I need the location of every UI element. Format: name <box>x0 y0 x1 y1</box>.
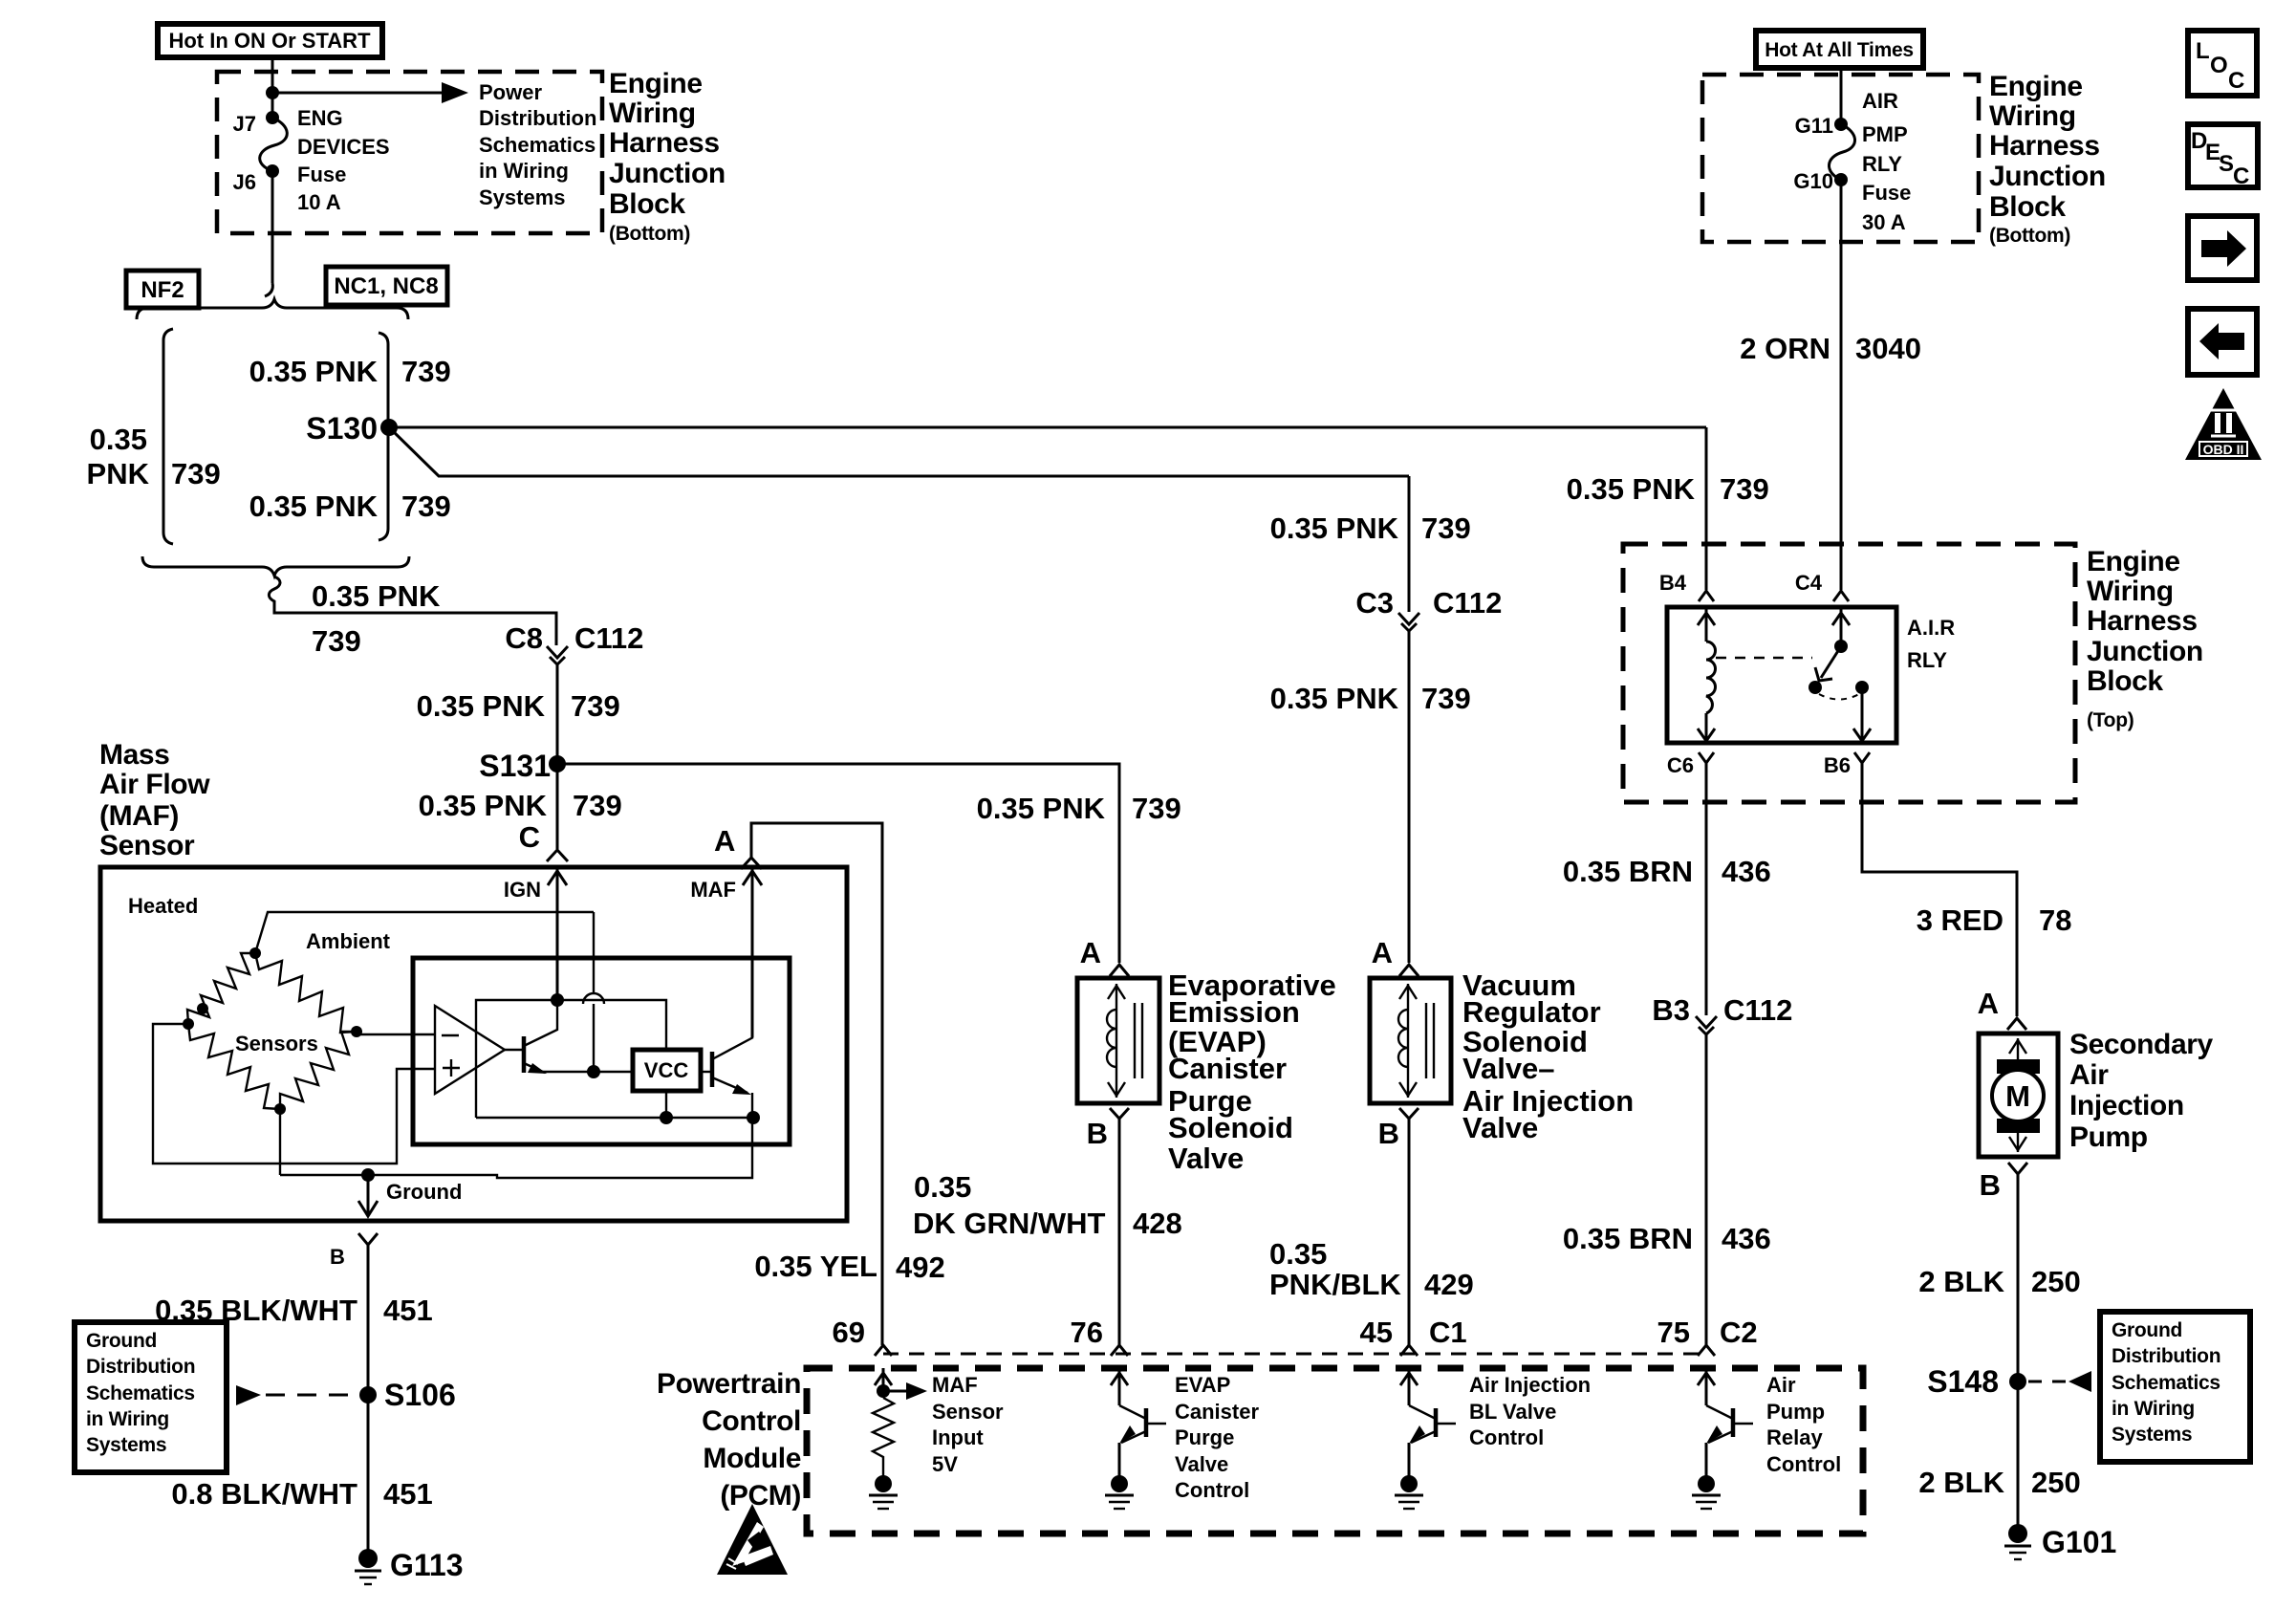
svg-text:G101: G101 <box>2042 1525 2116 1559</box>
svg-text:45: 45 <box>1360 1316 1393 1349</box>
svg-text:VCC: VCC <box>644 1058 689 1082</box>
svg-text:739: 739 <box>171 457 221 490</box>
svg-text:Air Flow: Air Flow <box>99 769 210 800</box>
junction dot feedback/IGN <box>551 993 564 1007</box>
label 0.8 BLK/WHT 451 <box>171 1477 432 1511</box>
svg-text:250: 250 <box>2031 1265 2081 1298</box>
wire break hook <box>265 283 272 296</box>
svg-text:2 BLK: 2 BLK <box>1918 1466 2004 1499</box>
svg-text:NC1, NC8: NC1, NC8 <box>334 273 438 299</box>
svg-text:Block: Block <box>609 188 685 220</box>
label 0.35 DK GRN/WHT 428 <box>913 1170 1182 1240</box>
svg-text:G113: G113 <box>390 1548 464 1582</box>
feedback wire op-amp loop top <box>476 1000 666 1118</box>
wire C112 to S131 <box>556 664 559 764</box>
icon box DESC <box>2188 124 2258 189</box>
svg-text:Harness: Harness <box>2087 605 2198 637</box>
svg-text:B: B <box>1980 1168 2001 1202</box>
svg-text:C2: C2 <box>1720 1316 1758 1349</box>
pin 75 / C2 <box>1657 1316 1758 1356</box>
svg-text:0.35 PNK: 0.35 PNK <box>249 355 379 388</box>
connector B3 / C112 <box>1652 993 1792 1034</box>
svg-text:436: 436 <box>1722 1222 1771 1255</box>
svg-text:75: 75 <box>1657 1316 1690 1349</box>
pin A of vacuum valve <box>1372 936 1419 976</box>
EVAP solenoid element <box>1107 984 1142 1098</box>
op-amp U1 <box>435 1006 505 1094</box>
svg-text:B3: B3 <box>1652 993 1690 1027</box>
svg-text:B4: B4 <box>1659 571 1687 595</box>
relay A.I.R RLY box <box>1667 607 1896 743</box>
svg-text:PNK/BLK: PNK/BLK <box>1269 1268 1401 1301</box>
svg-text:Wiring: Wiring <box>609 98 696 129</box>
svg-text:C1: C1 <box>1429 1316 1467 1349</box>
svg-text:0.35 PNK: 0.35 PNK <box>977 792 1106 825</box>
svg-text:DK GRN/WHT: DK GRN/WHT <box>913 1207 1106 1240</box>
PCM dashed box <box>807 1368 1863 1534</box>
svg-text:Sensor: Sensor <box>932 1400 1004 1424</box>
svg-text:(Bottom): (Bottom) <box>609 223 690 245</box>
label 0.35 PNK 739 <box>1567 472 1769 506</box>
svg-text:69: 69 <box>833 1316 865 1349</box>
wire C6 to B3 connector <box>1705 763 1708 1015</box>
svg-text:B: B <box>1378 1117 1399 1150</box>
title Powertrain Control Module (PCM) <box>657 1368 801 1512</box>
svg-text:NF2: NF2 <box>141 277 184 303</box>
pin A of EVAP valve <box>1080 936 1129 976</box>
wire pump B to G101 <box>2017 1174 2020 1534</box>
svg-text:Distribution: Distribution <box>2112 1345 2220 1367</box>
svg-text:Block: Block <box>1989 191 2066 223</box>
dashed reference arrow to S106 <box>236 1385 360 1405</box>
svg-text:3 RED: 3 RED <box>1917 903 2004 937</box>
svg-text:436: 436 <box>1722 855 1771 888</box>
svg-text:0.35 BRN: 0.35 BRN <box>1563 1222 1693 1255</box>
label 0.35 BRN 436 <box>1563 1222 1771 1255</box>
svg-text:MAF: MAF <box>690 878 736 902</box>
svg-text:Systems: Systems <box>86 1434 166 1456</box>
label 2 BLK 250 <box>1918 1265 2080 1298</box>
wire brace to C8 <box>269 577 556 645</box>
label 3 RED 78 <box>1917 903 2072 937</box>
svg-text:Harness: Harness <box>1989 130 2100 162</box>
svg-text:Valve–: Valve– <box>1462 1052 1555 1085</box>
label 0.35 BLK/WHT 451 <box>155 1294 433 1327</box>
pin B of pump <box>1980 1163 2027 1202</box>
pin 45 / C1 <box>1360 1316 1467 1356</box>
title Engine Wiring Harness Junction Block (Bottom) <box>609 68 726 245</box>
svg-text:PNK: PNK <box>87 457 150 490</box>
label 2 BLK 250 <box>1918 1466 2080 1499</box>
svg-text:RLY: RLY <box>1862 152 1902 176</box>
svg-text:C4: C4 <box>1795 571 1823 595</box>
svg-text:Powertrain: Powertrain <box>657 1368 801 1400</box>
svg-text:5V: 5V <box>932 1452 958 1476</box>
svg-text:RLY: RLY <box>1907 648 1947 672</box>
svg-text:Canister: Canister <box>1175 1400 1259 1424</box>
title Secondary Air Injection Pump <box>2069 1029 2214 1153</box>
svg-text:0.35 PNK: 0.35 PNK <box>1567 472 1696 506</box>
splice S131 <box>479 749 566 783</box>
vacuum solenoid element <box>1398 984 1434 1098</box>
ESD sensitive device symbol <box>717 1504 788 1575</box>
pin 76 <box>1071 1316 1128 1356</box>
lower feedback rail <box>476 1117 753 1119</box>
PCM MAF sensor input circuit <box>869 1368 927 1509</box>
svg-text:Engine: Engine <box>609 68 703 99</box>
svg-text:DEVICES: DEVICES <box>297 135 390 159</box>
label 0.35 PNK 739 <box>417 689 620 723</box>
pin B of MAF (bottom) <box>330 1233 378 1269</box>
svg-text:J7: J7 <box>233 112 256 136</box>
wire bridge top to IGN rail <box>255 912 594 953</box>
wire vacuum B to PCM pin 45 <box>1408 1119 1411 1345</box>
relay contact (NC) <box>1809 681 1822 694</box>
svg-text:429: 429 <box>1424 1268 1474 1301</box>
svg-text:0.35 PNK: 0.35 PNK <box>1270 682 1399 715</box>
MAF sensor outer box <box>100 867 847 1221</box>
svg-text:Air: Air <box>2069 1059 2109 1091</box>
svg-text:C6: C6 <box>1667 753 1694 777</box>
fuse ENG DEVICES 10A <box>260 118 288 171</box>
svg-text:S106: S106 <box>384 1378 456 1412</box>
svg-text:0.35 PNK: 0.35 PNK <box>417 689 546 723</box>
svg-text:739: 739 <box>573 789 622 822</box>
icon box LOC <box>2188 31 2257 96</box>
fuse AIR PMP RLY 30A <box>1829 124 1854 180</box>
label 0.35 PNK 739 <box>419 789 622 822</box>
svg-text:Hot In ON Or START: Hot In ON Or START <box>168 29 371 53</box>
relay coil <box>1698 607 1716 743</box>
svg-text:Relay: Relay <box>1766 1425 1823 1449</box>
wire from Hot In ON to J7 <box>271 57 274 118</box>
svg-text:Fuse: Fuse <box>297 163 346 186</box>
svg-text:S131: S131 <box>479 749 551 783</box>
resistor bridge upper-left (heated sensor) <box>187 953 255 1024</box>
svg-text:EVAP: EVAP <box>1175 1373 1230 1397</box>
label 0.35 PNK 739 (upper) <box>249 355 451 388</box>
note Power Distribution Schematics in Wiring Systems <box>479 80 596 209</box>
svg-text:Ground: Ground <box>2112 1319 2182 1341</box>
svg-text:Ground: Ground <box>386 1180 462 1204</box>
transistor Q2 <box>701 1037 753 1095</box>
wire VCC bottom to rail <box>665 1091 667 1118</box>
svg-text:Pump: Pump <box>1766 1400 1825 1424</box>
pin arrow MAF <box>690 869 762 1037</box>
label 0.35 BRN 436 <box>1563 855 1771 888</box>
svg-text:250: 250 <box>2031 1466 2081 1499</box>
svg-text:76: 76 <box>1071 1316 1103 1349</box>
svg-text:492: 492 <box>896 1251 945 1284</box>
svg-text:Secondary: Secondary <box>2069 1029 2214 1060</box>
wire from fuse J6 down <box>271 171 274 283</box>
transistor Q1 <box>505 1000 633 1074</box>
svg-text:Mass: Mass <box>99 739 169 771</box>
svg-text:A: A <box>714 824 735 858</box>
ground G101 <box>2004 1524 2116 1559</box>
voltage regulator VCC <box>633 1050 701 1091</box>
svg-text:MAF: MAF <box>932 1373 978 1397</box>
svg-text:Schematics: Schematics <box>86 1382 195 1404</box>
svg-text:PMP: PMP <box>1862 122 1908 146</box>
svg-text:739: 739 <box>571 689 620 723</box>
svg-text:2 ORN: 2 ORN <box>1740 332 1830 365</box>
svg-text:10 A: 10 A <box>297 190 341 214</box>
wire EVAP B to PCM pin 76 <box>1118 1119 1121 1345</box>
label 0.35 PNK/BLK 429 <box>1269 1237 1474 1301</box>
svg-text:30 A: 30 A <box>1862 210 1906 234</box>
svg-text:BL Valve: BL Valve <box>1469 1400 1556 1424</box>
label 0.35 PNK 739 <box>1270 682 1471 715</box>
svg-text:Sensors: Sensors <box>235 1032 318 1055</box>
wire bridge to non-inverting input <box>153 1024 435 1164</box>
junction dot Q2/rail <box>747 1111 760 1124</box>
PCM air pump relay driver transistor <box>1692 1368 1753 1509</box>
wire contact to B6 <box>1853 687 1871 743</box>
svg-text:739: 739 <box>401 355 451 388</box>
label MAF Sensor Input 5V <box>932 1373 1004 1476</box>
label box NF2 <box>126 271 199 308</box>
pin C4 <box>1795 571 1849 601</box>
svg-text:Power: Power <box>479 80 542 104</box>
svg-text:Control: Control <box>702 1405 801 1437</box>
label box "Hot At All Times" <box>1756 31 1923 68</box>
relay switch common from C4 <box>1832 607 1850 653</box>
ground arrow inside MAF <box>358 1175 462 1216</box>
svg-text:0.35 PNK: 0.35 PNK <box>419 789 548 822</box>
pin C of MAF sensor <box>519 820 568 861</box>
svg-text:O: O <box>2210 53 2228 78</box>
wire bridge to inverting input <box>357 1033 435 1035</box>
pin G10 <box>1793 169 1848 193</box>
label EVAP Canister Purge Valve Control <box>1175 1373 1259 1502</box>
svg-text:739: 739 <box>312 624 361 658</box>
engine wiring harness junction block (bottom) dashed box <box>217 72 602 233</box>
svg-text:C: C <box>2233 163 2249 189</box>
svg-text:ENG: ENG <box>297 106 343 130</box>
arrow to Power Distribution Schematics <box>272 82 468 103</box>
label 0.35 YEL 492 <box>754 1250 944 1284</box>
svg-text:AIR: AIR <box>1862 89 1898 113</box>
PCM air injection BL valve driver transistor <box>1395 1368 1456 1509</box>
connector C8 / C112 <box>505 621 643 664</box>
svg-text:451: 451 <box>383 1477 433 1511</box>
svg-text:Pump: Pump <box>2069 1121 2148 1153</box>
splice S106 <box>359 1378 456 1412</box>
svg-text:Schematics: Schematics <box>2112 1372 2220 1394</box>
svg-text:A: A <box>1978 987 1999 1020</box>
pin A of MAF (top) <box>714 824 762 869</box>
svg-text:739: 739 <box>1720 472 1769 506</box>
svg-text:Schematics: Schematics <box>479 133 596 157</box>
title Vacuum Regulator Solenoid Valve - Air Injection Valve <box>1462 968 1634 1144</box>
note box Ground Distribution Schematics in Wiring Systems (left) <box>75 1322 227 1472</box>
engine wiring harness junction block (top) dashed box <box>1623 544 2075 802</box>
svg-text:Systems: Systems <box>2112 1424 2192 1446</box>
svg-text:Distribution: Distribution <box>479 106 596 130</box>
svg-text:(MAF): (MAF) <box>99 800 179 832</box>
svg-text:Control: Control <box>1175 1478 1249 1502</box>
pin C6 <box>1667 752 1714 777</box>
svg-text:S130: S130 <box>306 411 378 446</box>
svg-text:Solenoid: Solenoid <box>1168 1111 1293 1144</box>
svg-text:Valve: Valve <box>1168 1142 1244 1175</box>
motor M element <box>1992 1038 2044 1152</box>
svg-text:0.35: 0.35 <box>1269 1237 1327 1271</box>
relay armature <box>1815 646 1841 681</box>
connector line C1/C2 at PCM <box>883 1353 1706 1356</box>
svg-text:0.35 PNK: 0.35 PNK <box>1270 511 1399 545</box>
svg-text:78: 78 <box>2039 903 2071 937</box>
svg-text:Fuse: Fuse <box>1862 181 1911 205</box>
wire C112 to vacuum valve A <box>1408 631 1411 963</box>
svg-text:C: C <box>2228 68 2244 94</box>
junction dot Q1 emitter / bridge rail <box>587 1065 600 1078</box>
left option bracket <box>163 329 173 544</box>
svg-text:C: C <box>519 820 540 854</box>
wire MAF B to S106 and G113 <box>367 1245 370 1558</box>
resistor bridge upper-right (ambient sensor) <box>255 953 357 1033</box>
svg-text:Ground: Ground <box>86 1330 157 1352</box>
svg-text:J6: J6 <box>233 170 256 194</box>
svg-text:0.8 BLK/WHT: 0.8 BLK/WHT <box>171 1477 357 1511</box>
svg-text:0.35: 0.35 <box>914 1170 971 1204</box>
PCM EVAP driver transistor <box>1105 1368 1166 1509</box>
svg-text:(Bottom): (Bottom) <box>1989 225 2070 247</box>
icon box right arrow <box>2188 216 2257 280</box>
svg-text:G10: G10 <box>1793 169 1833 193</box>
wire B6 to pump A <box>1862 763 2017 1016</box>
svg-text:B6: B6 <box>1824 753 1851 777</box>
pin 69 <box>833 1316 892 1356</box>
svg-text:Valve: Valve <box>1175 1452 1228 1476</box>
svg-text:3040: 3040 <box>1855 332 1921 365</box>
svg-text:A: A <box>1080 936 1101 969</box>
wire S130 to B4 (A.I.R relay feed) <box>389 426 1706 429</box>
svg-text:Junction: Junction <box>2087 636 2203 667</box>
note box Ground Distribution Schematics in Wiring Systems (right) <box>2100 1312 2250 1462</box>
svg-text:451: 451 <box>383 1294 433 1327</box>
svg-text:G11: G11 <box>1795 114 1833 138</box>
svg-text:Valve: Valve <box>1462 1111 1538 1144</box>
connector C3 / C112 <box>1355 586 1502 631</box>
motor secondary air injection pump box <box>1979 1033 2058 1157</box>
relay name A.I.R RLY <box>1907 616 1955 672</box>
svg-text:Systems: Systems <box>479 185 566 209</box>
svg-text:739: 739 <box>1421 682 1471 715</box>
relay contact B6 side <box>1855 681 1869 694</box>
value label AIR PMP RLY Fuse 30 A <box>1862 89 1911 234</box>
svg-text:in Wiring: in Wiring <box>86 1408 169 1430</box>
svg-text:C8: C8 <box>505 621 543 655</box>
label 0.35 PNK 739 <box>1270 511 1471 545</box>
pin arrow IGN <box>504 869 567 1000</box>
svg-text:0.35 BRN: 0.35 BRN <box>1563 855 1693 888</box>
svg-text:Block: Block <box>2087 665 2163 697</box>
svg-text:0.35: 0.35 <box>90 423 147 456</box>
svg-text:A.I.R: A.I.R <box>1907 616 1955 640</box>
wire C3 drop to vacuum valve <box>1408 476 1411 612</box>
svg-text:Control: Control <box>1766 1452 1841 1476</box>
svg-text:S: S <box>2219 151 2234 177</box>
svg-text:M: M <box>2005 1079 2030 1113</box>
splice S130 <box>306 411 398 446</box>
svg-text:Junction: Junction <box>1989 161 2106 192</box>
wire bridge bottom corner down <box>279 1109 281 1175</box>
dashed contact arc <box>1819 694 1859 700</box>
svg-text:Distribution: Distribution <box>86 1356 195 1378</box>
pin B6 <box>1824 752 1870 777</box>
pin B of EVAP valve <box>1087 1108 1129 1150</box>
svg-text:B: B <box>1087 1117 1108 1150</box>
junction dot VCC/rail <box>660 1111 673 1124</box>
wire S130 branch (right bracket) <box>379 333 388 540</box>
pin A of pump <box>1978 987 2026 1030</box>
svg-text:in Wiring: in Wiring <box>479 159 569 183</box>
svg-text:2 BLK: 2 BLK <box>1918 1265 2004 1298</box>
svg-text:L: L <box>2196 38 2210 64</box>
svg-text:IGN: IGN <box>504 878 541 902</box>
wire MAF A pin to PCM pin 69 <box>751 823 882 1345</box>
svg-text:B: B <box>330 1245 345 1269</box>
svg-text:Ambient: Ambient <box>306 929 391 953</box>
wire B3 to PCM pin 75 <box>1705 1034 1708 1345</box>
svg-text:428: 428 <box>1133 1207 1182 1240</box>
svg-text:(PCM): (PCM) <box>720 1480 801 1512</box>
svg-text:Wiring: Wiring <box>1989 100 2076 132</box>
svg-text:Emission: Emission <box>1168 995 1300 1029</box>
pin G11 <box>1795 114 1848 138</box>
svg-text:Harness: Harness <box>609 127 720 159</box>
svg-text:Module: Module <box>703 1443 801 1474</box>
svg-text:Input: Input <box>932 1425 984 1449</box>
splice S148 <box>1927 1364 2091 1399</box>
label Air Pump Relay Control <box>1766 1373 1841 1476</box>
svg-text:C112: C112 <box>1723 993 1792 1027</box>
pin J7 <box>233 111 279 136</box>
wire S131 to MAF C pin <box>556 764 559 849</box>
pin J6 <box>233 164 279 194</box>
dashed mechanical link <box>1716 657 1812 659</box>
svg-text:0.35 PNK: 0.35 PNK <box>249 490 379 523</box>
svg-text:OBD II: OBD II <box>2203 442 2244 457</box>
svg-text:Engine: Engine <box>2087 546 2180 577</box>
svg-text:Junction: Junction <box>609 158 726 189</box>
svg-text:Heated: Heated <box>128 894 198 918</box>
label box NC1, NC8 <box>326 267 447 305</box>
label 2 ORN 3040 <box>1740 332 1921 365</box>
svg-text:(Top): (Top) <box>2087 709 2134 731</box>
bridge nodes <box>249 947 261 959</box>
svg-text:C3: C3 <box>1355 586 1394 620</box>
svg-text:Sensor: Sensor <box>99 830 195 861</box>
svg-text:Hot At All Times: Hot At All Times <box>1765 39 1913 61</box>
label 0.35 PNK 739 (left bracket) <box>87 423 221 490</box>
icon OBD II triangle <box>2185 388 2262 460</box>
inner amplifier box <box>413 958 790 1144</box>
wire B4 drop <box>1705 427 1708 590</box>
wire G10 to C4 <box>1840 180 1843 590</box>
icon box left arrow <box>2188 309 2257 375</box>
svg-text:739: 739 <box>1421 511 1471 545</box>
svg-text:0.35 YEL: 0.35 YEL <box>754 1250 877 1283</box>
title Engine Wiring Harness Junction Block (Bottom) right <box>1989 71 2106 247</box>
svg-text:A: A <box>1372 936 1393 969</box>
svg-text:in Wiring: in Wiring <box>2112 1398 2195 1420</box>
svg-text:C112: C112 <box>574 621 643 655</box>
svg-text:739: 739 <box>401 490 451 523</box>
svg-text:Injection: Injection <box>2069 1090 2184 1121</box>
